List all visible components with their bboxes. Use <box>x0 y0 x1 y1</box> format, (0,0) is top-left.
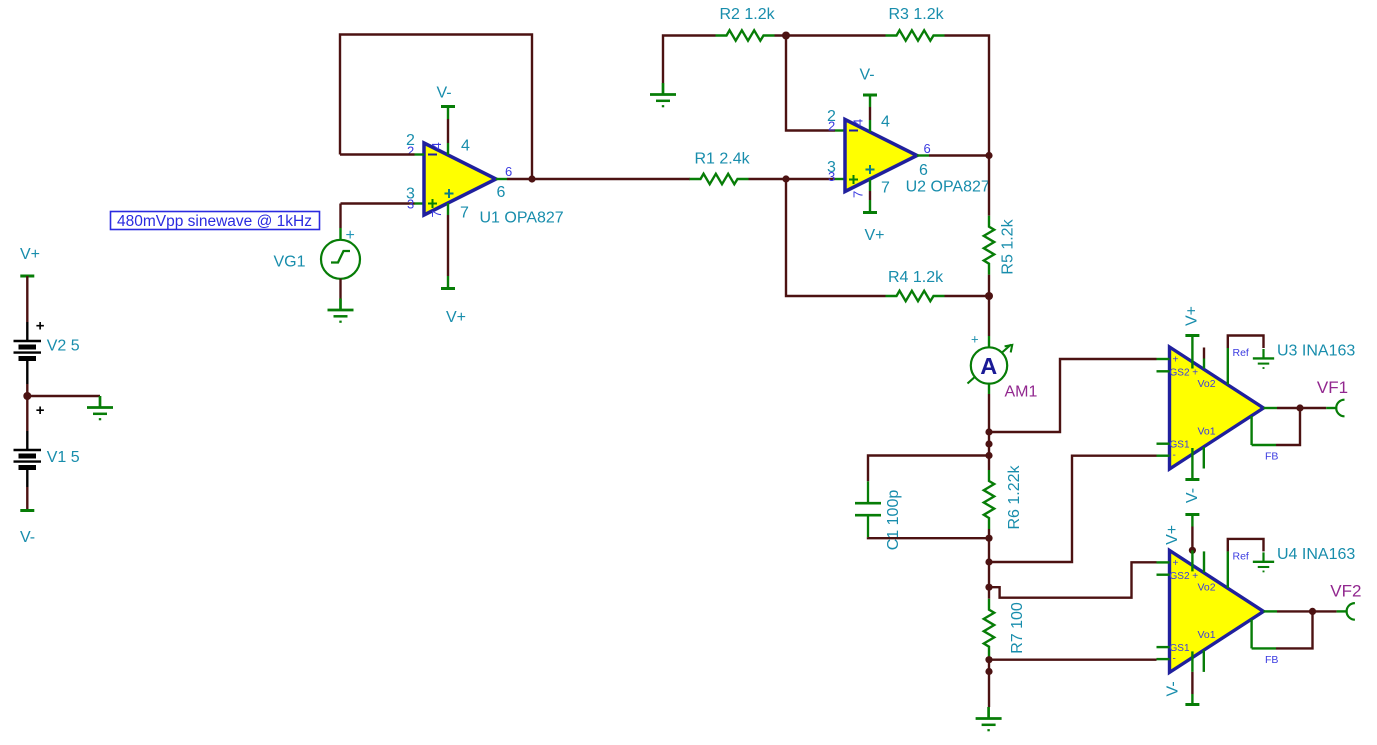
svg-text:R6 1.22k: R6 1.22k <box>1006 464 1023 529</box>
svg-text:2: 2 <box>828 119 835 134</box>
op-amp U2 triangle <box>845 120 917 192</box>
U3 V+ terminal <box>1185 335 1199 337</box>
wire R7 to node G <box>988 658 990 660</box>
wire V+ terminal to battery V2 <box>26 276 28 322</box>
svg-text:6: 6 <box>919 162 928 179</box>
U4 pin Vo2 <box>1227 551 1229 588</box>
U3 Ref pin stub <box>1203 348 1205 359</box>
wire U1 output <box>496 178 507 180</box>
wire node F to R7 <box>988 587 990 599</box>
op-amp U1 triangle <box>424 143 496 215</box>
svg-text:3: 3 <box>407 197 414 212</box>
node F (R7 top) <box>985 584 992 591</box>
wire R1 to node <box>749 178 836 180</box>
U2 V- terminal (pin 4) <box>863 94 877 96</box>
svg-text:+: + <box>36 318 45 335</box>
svg-text:7: 7 <box>429 210 444 217</box>
svg-text:6: 6 <box>924 141 931 156</box>
U4 pin FB <box>1250 619 1252 648</box>
svg-text:FB: FB <box>1265 654 1278 666</box>
node U3 output <box>1296 404 1303 411</box>
svg-text:V+: V+ <box>865 227 885 244</box>
svg-text:Ref: Ref <box>1233 550 1249 562</box>
svg-text:Vo1: Vo1 <box>1198 426 1216 438</box>
node chain B <box>985 440 992 447</box>
wire battery V2 to mid node <box>26 361 28 384</box>
wire node C to R6 <box>988 456 990 471</box>
svg-text:GS2 +: GS2 + <box>1170 571 1199 582</box>
U4 Ref pin stub <box>1203 551 1205 572</box>
resistor R7 <box>984 599 994 658</box>
wire R2 to R3 <box>775 34 886 36</box>
resistor R1 <box>690 174 749 184</box>
node R1/U2/R4 <box>782 175 789 182</box>
U3 pin Vo2 <box>1227 348 1229 385</box>
svg-text:3: 3 <box>828 169 835 184</box>
svg-text:V-: V- <box>437 85 452 102</box>
node H <box>985 668 992 675</box>
wire R4 to R5 node <box>945 295 990 297</box>
wire U4 output <box>1264 610 1278 612</box>
svg-text:2: 2 <box>407 144 414 159</box>
svg-text:A: A <box>980 353 997 379</box>
svg-text:AM1: AM1 <box>1005 384 1038 401</box>
output terminal VF1 <box>1336 400 1344 417</box>
svg-text:+: + <box>346 227 355 244</box>
wire U2 output <box>917 154 929 156</box>
node R2/R3/U2 pin2 <box>782 32 790 40</box>
wire node G to ground <box>988 660 990 707</box>
V- terminal <box>20 510 34 512</box>
svg-text:7: 7 <box>851 191 866 198</box>
node R4/R5/AM1 <box>985 292 993 300</box>
wire U2 pin7 to V+ terminal <box>869 180 871 192</box>
capacitor C1 <box>855 481 881 537</box>
resistor R4 <box>886 291 945 301</box>
svg-text:V2 5: V2 5 <box>47 338 80 355</box>
resistor R5 <box>984 216 994 275</box>
wire node A to U3 plus input <box>989 359 1157 432</box>
generator VG1 <box>274 227 361 279</box>
svg-text:4: 4 <box>461 138 470 155</box>
node E (to U3 minus) <box>985 558 992 565</box>
node chain A <box>985 428 992 435</box>
resistor R2 <box>716 30 775 40</box>
svg-text:Vo1: Vo1 <box>1198 629 1216 641</box>
U1 V- terminal (pin 4) <box>441 106 455 108</box>
svg-text:V+: V+ <box>20 246 40 263</box>
ammeter AM1 <box>968 332 1013 384</box>
svg-text:+: + <box>971 332 979 347</box>
svg-text:V+: V+ <box>446 309 466 326</box>
wire U3 output to terminal <box>1300 407 1326 409</box>
svg-text:+: + <box>1173 558 1179 569</box>
svg-text:C1 100p: C1 100p <box>885 490 902 551</box>
U4 pin + input <box>1157 561 1170 563</box>
wire U3 Vo2/Ref to ground <box>1228 336 1264 349</box>
ground (R2) <box>650 83 676 106</box>
U4 V+ terminal <box>1185 514 1199 516</box>
wire mid node to battery V1 <box>26 396 28 431</box>
wire VG1 to U1 pin 3 <box>341 202 415 204</box>
wire U1 pin4 to V- terminal <box>447 107 449 120</box>
svg-text:V-: V- <box>20 529 35 546</box>
U3 pin GS2 <box>1157 370 1170 372</box>
svg-text:VF1: VF1 <box>1317 378 1348 397</box>
ground (VG1) <box>328 299 354 322</box>
instrumentation amp U3 triangle <box>1170 347 1264 469</box>
wire node D to node E to node F <box>988 538 990 587</box>
wire R3 to U2 output node <box>945 36 990 156</box>
U3 pin GS1 <box>1157 443 1170 445</box>
svg-text:V+: V+ <box>1164 525 1181 545</box>
U4 pin GS2 <box>1157 574 1170 576</box>
node U2 output/R3/R5 <box>985 152 992 159</box>
svg-text:R5 1.2k: R5 1.2k <box>1000 218 1017 274</box>
wire battery V1 to V- terminal <box>26 470 28 487</box>
U3 pin - input <box>1157 455 1170 457</box>
svg-text:V-: V- <box>860 67 875 84</box>
wire U2 pin4 to V- terminal <box>869 95 871 107</box>
wire R1 node down to R4 <box>786 179 886 296</box>
svg-text:V-: V- <box>1165 681 1182 696</box>
svg-text:4: 4 <box>881 114 890 131</box>
ground (bottom) <box>976 707 1002 730</box>
battery V1 <box>14 402 80 468</box>
svg-text:U1 OPA827: U1 OPA827 <box>480 209 564 226</box>
svg-text:Vo2: Vo2 <box>1198 378 1216 390</box>
wire node F to U4 plus input <box>989 562 1157 597</box>
wire R6 to node D <box>988 529 990 538</box>
wire R2/R3 node to U2 pin 2 <box>786 36 835 131</box>
svg-text:GS2 +: GS2 + <box>1170 368 1199 379</box>
node chain C <box>985 452 992 459</box>
U1 V+ terminal (pin 7) <box>441 288 455 290</box>
svg-text:7: 7 <box>881 180 890 197</box>
wire mid node to ground <box>27 395 100 397</box>
wire C1 bottom to node D <box>868 536 989 539</box>
U4 Vo1 pin stub <box>1203 650 1205 672</box>
V+ terminal <box>20 275 34 277</box>
U3 pin FB <box>1250 416 1252 445</box>
resistor R3 <box>886 30 945 40</box>
output terminal VF2 <box>1347 603 1355 620</box>
svg-text:+: + <box>1173 355 1179 366</box>
svg-text:R1 2.4k: R1 2.4k <box>695 151 751 168</box>
wire R4 node to AM1 <box>988 296 990 336</box>
node U4 output <box>1309 608 1316 615</box>
U2 V+ terminal (pin 7) <box>863 212 877 214</box>
wire node G to U4 minus input <box>989 659 1157 661</box>
svg-text:6: 6 <box>497 184 506 201</box>
svg-text:U2 OPA827: U2 OPA827 <box>906 179 990 196</box>
svg-text:7: 7 <box>460 205 469 222</box>
annotation box "480mVpp sinewave @ 1kHz" <box>111 212 320 230</box>
svg-text:U4 INA163: U4 INA163 <box>1277 546 1355 563</box>
svg-text:GS1: GS1 <box>1170 440 1190 451</box>
wire AM1 to node chain <box>988 383 990 394</box>
U4 pin GS1 <box>1157 646 1170 648</box>
svg-text:R2 1.2k: R2 1.2k <box>720 6 776 23</box>
svg-text:-: - <box>1173 450 1176 461</box>
svg-text:VF2: VF2 <box>1330 581 1361 600</box>
svg-text:4: 4 <box>851 119 866 126</box>
svg-text:-: - <box>1173 653 1176 664</box>
svg-text:V-: V- <box>1184 488 1201 503</box>
wire U4 Vo2/Ref to ground <box>1228 539 1264 552</box>
wire VG1 to ground <box>339 279 341 299</box>
svg-text:V1 5: V1 5 <box>47 449 80 466</box>
node U1 output/feedback <box>528 175 535 182</box>
ground (power rail) <box>87 396 113 419</box>
wire U2 output node to R5 <box>988 156 990 216</box>
svg-text:Vo2: Vo2 <box>1198 581 1216 593</box>
svg-text:R4 1.2k: R4 1.2k <box>888 269 944 286</box>
U3 pin + input <box>1157 358 1170 360</box>
instrumentation amp U4 triangle <box>1170 550 1264 672</box>
svg-text:GS1: GS1 <box>1170 643 1190 654</box>
node U4 V+ <box>1189 547 1196 554</box>
battery V2 <box>14 318 80 359</box>
svg-text:VG1: VG1 <box>274 254 306 271</box>
svg-text:V+: V+ <box>1184 306 1201 326</box>
svg-text:+: + <box>36 402 45 419</box>
svg-text:6: 6 <box>505 164 512 179</box>
node battery midpoint <box>23 392 31 400</box>
node D (R6/C1 bottom) <box>985 535 992 542</box>
wire node C to C1 top <box>868 456 989 482</box>
wire R2 left / ground drop <box>663 36 716 84</box>
ground (U4 Ref) <box>1253 552 1274 571</box>
wire U4 FB loop <box>1252 647 1276 649</box>
wire U1 pin 2 <box>340 153 415 155</box>
svg-text:FB: FB <box>1265 451 1278 463</box>
wire U4 output to terminal <box>1313 610 1337 612</box>
svg-text:Ref: Ref <box>1233 347 1249 359</box>
wire R5 to R4 node <box>988 275 990 296</box>
node G (R7 bottom / U4 minus) <box>985 656 992 663</box>
wire U3 FB loop <box>1252 444 1276 446</box>
U4 pin - input <box>1157 658 1170 660</box>
wire node E to U3 minus input <box>989 456 1157 562</box>
svg-text:R7 100: R7 100 <box>1009 602 1026 654</box>
svg-text:480mVpp sinewave @ 1kHz: 480mVpp sinewave @ 1kHz <box>117 213 312 230</box>
wire U1 pin7 to V+ terminal <box>447 203 449 215</box>
wire U3 output <box>1264 407 1278 409</box>
U3 Vo1 pin stub <box>1203 447 1205 469</box>
svg-text:4: 4 <box>429 142 444 149</box>
ground (U3 Ref) <box>1253 349 1274 368</box>
resistor R6 <box>984 470 994 529</box>
U4 V- terminal <box>1185 704 1199 706</box>
U3 V- terminal <box>1185 479 1199 481</box>
wire U1 feedback loop <box>340 35 532 180</box>
svg-text:R3 1.2k: R3 1.2k <box>889 6 945 23</box>
svg-text:U3 INA163: U3 INA163 <box>1277 343 1355 360</box>
